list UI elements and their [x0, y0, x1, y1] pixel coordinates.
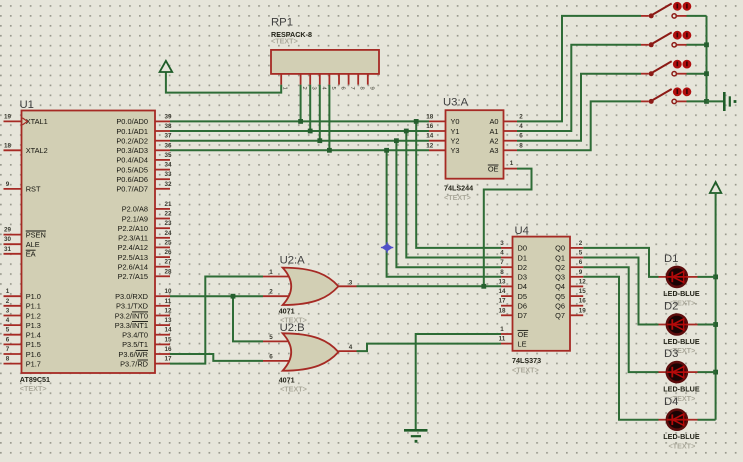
- svg-text:<TEXT>: <TEXT>: [280, 384, 307, 393]
- svg-text:<TEXT>: <TEXT>: [20, 384, 47, 393]
- svg-text:2: 2: [6, 298, 10, 305]
- svg-text:1: 1: [282, 87, 288, 90]
- svg-text:P2.3/A11: P2.3/A11: [118, 234, 148, 243]
- svg-text:Q5: Q5: [555, 292, 565, 301]
- svg-text:6: 6: [519, 133, 523, 140]
- svg-text:19: 19: [4, 113, 12, 120]
- svg-text:5: 5: [269, 334, 273, 341]
- svg-text:P1.6: P1.6: [26, 350, 41, 359]
- svg-text:LED-BLUE: LED-BLUE: [663, 432, 700, 441]
- svg-text:P0.5/AD5: P0.5/AD5: [116, 165, 148, 174]
- svg-text:A0: A0: [489, 117, 498, 126]
- svg-text:8: 8: [519, 142, 523, 149]
- microcontroller U1 AT89C51 body: [20, 99, 156, 393]
- svg-text:26: 26: [164, 249, 172, 256]
- svg-text:OE: OE: [488, 164, 499, 173]
- svg-text:12: 12: [579, 278, 587, 285]
- svg-text:P0.0/AD0: P0.0/AD0: [116, 117, 148, 126]
- svg-text:5: 5: [330, 87, 336, 90]
- svg-text:RP1: RP1: [271, 16, 293, 28]
- power arrow VCC (right) and LED anode rail: [698, 182, 722, 420]
- svg-text:18: 18: [4, 142, 12, 149]
- wire net U2A.3 output - U3A.OE - U4.D4: [357, 169, 532, 289]
- svg-text:9: 9: [368, 87, 374, 90]
- svg-text:10: 10: [164, 288, 172, 295]
- svg-text:4071: 4071: [279, 375, 295, 384]
- svg-text:D3: D3: [664, 348, 678, 360]
- svg-text:15: 15: [164, 336, 172, 343]
- wire net P0.1/AD1 bus (U1.38 - RP1.3 - U3.Y1 - U4.D1): [170, 85, 501, 258]
- svg-text:Q1: Q1: [555, 253, 565, 262]
- OR gate U2:A input stubs (pins 1,2): [263, 269, 291, 296]
- svg-text:25: 25: [164, 239, 172, 246]
- svg-text:P1.1: P1.1: [26, 302, 41, 311]
- svg-text:Y1: Y1: [451, 127, 460, 136]
- svg-text:38: 38: [164, 123, 172, 130]
- svg-text:OE: OE: [518, 330, 529, 339]
- svg-text:39: 39: [164, 113, 172, 120]
- svg-text:31: 31: [4, 246, 12, 253]
- wire RP1 pin1 to VCC power arrow: [166, 72, 281, 93]
- svg-text:14: 14: [498, 288, 506, 295]
- svg-text:P2.2/A10: P2.2/A10: [118, 224, 148, 233]
- LED D2 LED-BLUE: [659, 301, 700, 356]
- svg-text:U1: U1: [20, 99, 34, 111]
- svg-text:P2.4/A12: P2.4/A12: [118, 243, 148, 252]
- svg-text:8: 8: [6, 356, 10, 363]
- svg-text:Q7: Q7: [555, 311, 565, 320]
- svg-text:5: 5: [6, 327, 10, 334]
- svg-text:D0: D0: [518, 244, 527, 253]
- svg-text:9: 9: [6, 181, 10, 188]
- svg-text:P0.2/AD2: P0.2/AD2: [116, 137, 148, 146]
- resistor pack RP1 RESPACK-8 body: [271, 16, 379, 74]
- svg-text:P1.7: P1.7: [26, 359, 41, 368]
- svg-text:P3.1/TXD: P3.1/TXD: [116, 302, 148, 311]
- svg-text:P2.1/A9: P2.1/A9: [122, 214, 148, 223]
- U3:A right pin stubs, numbers and names (A0-A3, OE pin 1): [488, 113, 523, 173]
- svg-text:P2.6/A14: P2.6/A14: [118, 263, 148, 272]
- svg-text:XTAL2: XTAL2: [26, 146, 48, 155]
- svg-text:D3: D3: [518, 273, 527, 282]
- svg-text:3: 3: [311, 87, 317, 90]
- svg-text:11: 11: [165, 298, 172, 305]
- wire switch common bus to ground (top right): [687, 16, 725, 104]
- svg-text:EA: EA: [26, 250, 36, 259]
- switch SW2 (SPST): [641, 31, 691, 47]
- svg-text:P0.1/AD1: P0.1/AD1: [116, 127, 148, 136]
- wire net U4.Q0 to LED D1: [583, 248, 658, 277]
- svg-text:U2:A: U2:A: [280, 255, 306, 267]
- svg-text:4: 4: [6, 317, 10, 324]
- svg-text:ALE: ALE: [26, 240, 40, 249]
- svg-text:28: 28: [164, 268, 172, 275]
- svg-text:7: 7: [6, 346, 10, 353]
- svg-text:Y0: Y0: [451, 117, 460, 126]
- svg-text:16: 16: [426, 123, 434, 130]
- svg-text:6: 6: [340, 87, 346, 90]
- wire net U4.Q1 to LED D2: [583, 258, 658, 325]
- svg-text:1: 1: [500, 326, 504, 333]
- svg-text:4: 4: [519, 123, 523, 130]
- LED D1 LED-BLUE: [659, 253, 700, 308]
- svg-text:5: 5: [579, 250, 583, 257]
- svg-text:Q3: Q3: [555, 273, 565, 282]
- wire net P0.3/AD3 bus (U1.36 - RP1.5 - U3.Y3 - U4.D3): [170, 85, 501, 277]
- svg-text:8: 8: [500, 269, 504, 276]
- wire net P0.0/AD0 bus (U1.39 - RP1.2 - U3.Y0 - U4.D0): [170, 85, 501, 248]
- OR gate U2:A 4071 body: [279, 255, 339, 325]
- svg-text:18: 18: [498, 307, 506, 314]
- svg-text:<TEXT>: <TEXT>: [271, 37, 298, 46]
- svg-text:74LS373: 74LS373: [512, 356, 541, 365]
- buffer U3:A 74LS244 body: [443, 97, 504, 203]
- svg-text:A2: A2: [489, 137, 498, 146]
- svg-text:13: 13: [164, 317, 172, 324]
- svg-text:22: 22: [164, 211, 172, 218]
- wire net U2B.4 output - U4.LE: [357, 344, 502, 352]
- RP1 pin stubs and pin numbers 1-9: [281, 74, 374, 91]
- U1 left pin stubs, numbers and names: [4, 113, 48, 368]
- svg-text:<TEXT>: <TEXT>: [512, 366, 539, 375]
- svg-text:17: 17: [498, 298, 506, 305]
- wire net U3.A3 to switch SW4: [517, 101, 641, 150]
- wire net P3.7/RD (U1.17 - U2A.1): [170, 277, 263, 364]
- svg-text:D2: D2: [664, 301, 678, 313]
- svg-text:4: 4: [349, 344, 353, 351]
- svg-text:XTAL1: XTAL1: [26, 117, 48, 126]
- svg-text:7: 7: [349, 87, 355, 90]
- svg-text:U3:A: U3:A: [443, 97, 469, 109]
- svg-text:35: 35: [164, 152, 172, 159]
- LED D4 LED-BLUE: [659, 396, 700, 451]
- svg-text:29: 29: [4, 227, 12, 234]
- svg-text:12: 12: [426, 142, 434, 149]
- svg-text:15: 15: [579, 288, 587, 295]
- svg-text:P3.5/T1: P3.5/T1: [122, 340, 148, 349]
- svg-text:P0.3/AD3: P0.3/AD3: [116, 146, 148, 155]
- svg-text:14: 14: [426, 133, 434, 140]
- svg-text:P1.2: P1.2: [26, 311, 41, 320]
- svg-text:37: 37: [164, 133, 172, 140]
- U1 XTAL1 clock marker: [22, 118, 27, 125]
- svg-text:21: 21: [164, 201, 172, 208]
- wire net U4.OE to ground: [416, 334, 501, 429]
- switch SW3 (SPST): [641, 60, 691, 77]
- svg-text:Q0: Q0: [555, 244, 565, 253]
- svg-text:U4: U4: [515, 225, 529, 237]
- svg-text:PSEN: PSEN: [26, 230, 46, 239]
- OR gate U2:A output stub (pin 3): [338, 279, 356, 286]
- OR gate U2:B output stub (pin 4): [338, 344, 356, 351]
- LED D3 LED-BLUE: [659, 348, 700, 403]
- wire net U4.Q3 to LED D4: [583, 277, 658, 420]
- U1 right pin stubs, numbers and names (P0, P2, P3): [115, 113, 172, 368]
- svg-text:RST: RST: [26, 185, 41, 194]
- svg-text:6: 6: [6, 336, 10, 343]
- svg-text:32: 32: [164, 181, 172, 188]
- svg-text:8: 8: [359, 87, 365, 90]
- svg-text:17: 17: [164, 356, 172, 363]
- svg-text:13: 13: [498, 278, 506, 285]
- svg-text:P1.5: P1.5: [26, 340, 41, 349]
- svg-text:Q6: Q6: [555, 302, 565, 311]
- ground symbol (bottom centre): [404, 430, 428, 442]
- svg-text:1: 1: [269, 269, 273, 276]
- svg-text:3: 3: [500, 240, 504, 247]
- svg-text:14: 14: [164, 327, 172, 334]
- svg-text:P3.3/INT1: P3.3/INT1: [115, 321, 148, 330]
- svg-text:P2.7/A15: P2.7/A15: [118, 272, 148, 281]
- svg-text:3: 3: [6, 308, 10, 315]
- svg-text:9: 9: [579, 269, 583, 276]
- svg-text:LED-BLUE: LED-BLUE: [663, 337, 700, 346]
- wire net U4.Q2 to LED D3: [583, 267, 658, 372]
- svg-text:2: 2: [269, 289, 273, 296]
- svg-text:D1: D1: [664, 253, 678, 265]
- switch SW1 (SPST): [641, 2, 691, 19]
- svg-text:P2.0/A8: P2.0/A8: [122, 205, 148, 214]
- svg-text:30: 30: [4, 236, 12, 243]
- svg-text:16: 16: [579, 298, 587, 305]
- svg-text:P3.4/T0: P3.4/T0: [122, 331, 148, 340]
- svg-text:19: 19: [579, 307, 587, 314]
- svg-text:D7: D7: [518, 311, 527, 320]
- svg-text:36: 36: [164, 142, 172, 149]
- svg-text:D6: D6: [518, 302, 527, 311]
- svg-text:A1: A1: [489, 127, 498, 136]
- U4 right pin stubs, numbers and names (Q0-Q7): [555, 240, 586, 320]
- svg-text:D2: D2: [518, 263, 527, 272]
- schematic origin marker (blue): [381, 242, 393, 253]
- svg-text:D4: D4: [518, 282, 527, 291]
- wire net P0.2/AD2 bus (U1.37 - RP1.4 - U3.Y2 - U4.D2): [170, 85, 501, 268]
- ground symbol (right, rotated): [724, 92, 736, 111]
- svg-text:P1.4: P1.4: [26, 331, 41, 340]
- svg-text:24: 24: [164, 230, 172, 237]
- svg-text:U2:B: U2:B: [280, 322, 305, 334]
- svg-text:2: 2: [301, 87, 307, 90]
- svg-text:16: 16: [164, 346, 172, 353]
- svg-text:P3.6/WR: P3.6/WR: [118, 350, 148, 359]
- power arrow VCC (top left): [160, 61, 173, 72]
- svg-text:P3.7/RD: P3.7/RD: [120, 359, 148, 368]
- svg-text:Y2: Y2: [451, 137, 460, 146]
- svg-text:11: 11: [499, 336, 506, 343]
- U3:A left pin stubs, numbers and names (Y0-Y3): [426, 113, 459, 155]
- svg-text:Y3: Y3: [451, 146, 460, 155]
- U4 left pin stubs, numbers and names (D0-D7, OE pin 1, LE pin 11): [498, 240, 528, 349]
- svg-text:3: 3: [349, 279, 353, 286]
- svg-text:P0.7/AD7: P0.7/AD7: [116, 185, 148, 194]
- wire net U3.A1 to switch SW2: [517, 45, 641, 131]
- switch SW4 (SPST): [641, 87, 691, 104]
- svg-text:18: 18: [426, 113, 434, 120]
- svg-text:33: 33: [164, 171, 172, 178]
- svg-text:P0.4/AD4: P0.4/AD4: [116, 156, 148, 165]
- svg-text:P3.0/RXD: P3.0/RXD: [115, 292, 148, 301]
- OR gate U2:B input stubs (pins 5,6): [263, 334, 291, 361]
- svg-text:27: 27: [164, 259, 172, 266]
- svg-text:A3: A3: [489, 146, 498, 155]
- svg-text:<TEXT>: <TEXT>: [444, 193, 471, 202]
- wire net U3.A0 to switch SW1: [517, 16, 641, 122]
- svg-text:Q2: Q2: [555, 263, 565, 272]
- latch U4 74LS373 body: [512, 225, 570, 375]
- svg-text:P2.5/A13: P2.5/A13: [118, 253, 148, 262]
- svg-text:LED-BLUE: LED-BLUE: [663, 384, 700, 393]
- svg-text:2: 2: [519, 113, 523, 120]
- wire net P3.0/RXD (U1.10 - U2A.2 - U2B.5): [170, 294, 263, 342]
- svg-text:D5: D5: [518, 292, 527, 301]
- svg-text:P0.6/AD6: P0.6/AD6: [116, 175, 148, 184]
- svg-text:34: 34: [164, 162, 172, 169]
- svg-text:23: 23: [164, 220, 172, 227]
- svg-text:D1: D1: [518, 253, 527, 262]
- svg-text:P1.0: P1.0: [26, 292, 41, 301]
- svg-text:1: 1: [510, 160, 514, 167]
- svg-text:AT89C51: AT89C51: [20, 375, 50, 384]
- OR gate U2:B 4071 body: [279, 322, 339, 393]
- svg-text:12: 12: [164, 308, 172, 315]
- svg-text:74LS244: 74LS244: [444, 184, 473, 193]
- svg-text:2: 2: [579, 240, 583, 247]
- wire net U3.A2 to switch SW3: [517, 74, 641, 141]
- svg-text:D4: D4: [664, 396, 678, 408]
- svg-text:P1.3: P1.3: [26, 321, 41, 330]
- svg-text:1: 1: [6, 288, 10, 295]
- wire net P3.6/WR (U1.16 - U2B.6): [170, 354, 263, 361]
- svg-text:4: 4: [500, 250, 504, 257]
- svg-text:4071: 4071: [279, 307, 295, 316]
- svg-text:LE: LE: [518, 339, 527, 348]
- svg-text:Q4: Q4: [555, 282, 565, 291]
- svg-text:<TEXT>: <TEXT>: [669, 441, 696, 450]
- svg-text:LED-BLUE: LED-BLUE: [663, 289, 700, 298]
- svg-text:6: 6: [269, 354, 273, 361]
- svg-text:P3.2/INT0: P3.2/INT0: [115, 311, 148, 320]
- svg-text:6: 6: [579, 259, 583, 266]
- svg-text:7: 7: [500, 259, 504, 266]
